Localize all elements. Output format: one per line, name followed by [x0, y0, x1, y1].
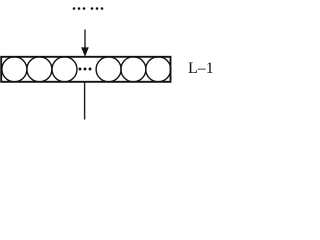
- svg-text:L–1: L–1: [188, 60, 214, 77]
